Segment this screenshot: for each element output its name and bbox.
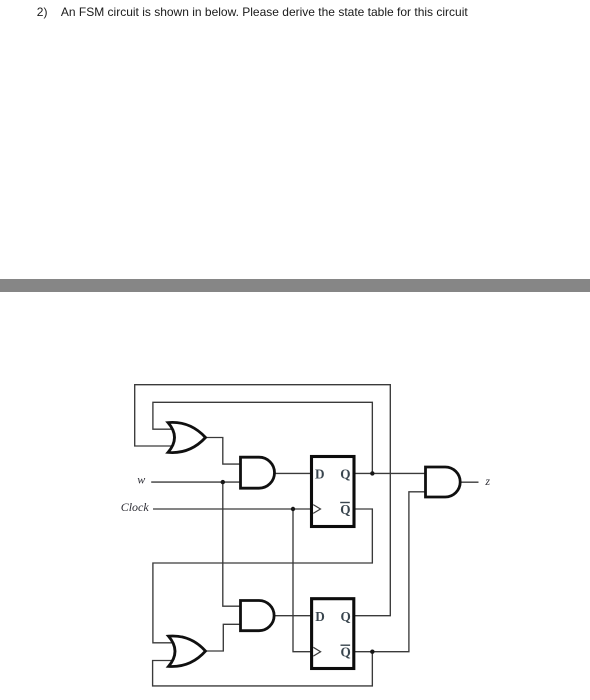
wire: Clock branch down to FF2 clock input xyxy=(293,509,312,652)
D flip-flop U1 (top) box xyxy=(312,457,355,527)
wire: OR1 output to AND1 upper input xyxy=(205,438,242,465)
svg-text:Q: Q xyxy=(340,502,350,517)
U1 clock input triangle xyxy=(313,505,320,514)
svg-text:Q: Q xyxy=(341,609,351,624)
wire: FF2 Q output / outer feedback loop to OR1 lower input xyxy=(135,385,391,616)
wire: Clock line to FF1 clock input xyxy=(153,508,312,510)
wire: AND1 output to FF1 D input xyxy=(273,472,312,474)
or-gate G1 (top OR) xyxy=(168,422,206,452)
wire: w input line to AND1 lower input xyxy=(151,481,241,483)
wire: FF1 Q output to AND3 upper input xyxy=(355,472,427,474)
and-gate G3 (output AND producing z) xyxy=(426,467,461,497)
gray separator bar xyxy=(0,279,590,292)
junction: Clock branch node xyxy=(291,507,295,511)
wire: AND2 output to FF2 D input xyxy=(273,615,313,617)
and-gate G2 (top AND) xyxy=(241,457,275,488)
U2 Qbar overline xyxy=(341,644,351,646)
and-gate G4 (bottom AND) xyxy=(241,601,275,631)
svg-text:D: D xyxy=(315,609,325,624)
or-gate G5 (bottom OR) xyxy=(169,636,206,666)
wire: AND3 output to z xyxy=(459,481,479,483)
wire: FF2 Qbar branch bottom loop to OR2 lower input xyxy=(153,652,373,686)
U2 clock input triangle xyxy=(313,647,320,656)
svg-text:w: w xyxy=(137,473,145,487)
svg-text:Q: Q xyxy=(341,645,351,660)
wire: w branch down to AND2 upper input xyxy=(223,482,242,606)
problem statement text xyxy=(37,5,468,19)
svg-text:Clock: Clock xyxy=(121,500,150,514)
junction: FF2 Qbar node xyxy=(370,650,374,654)
wire: FF2 Qbar output up to AND3 lower input xyxy=(355,492,427,652)
svg-text:D: D xyxy=(315,467,325,482)
junction: w branch node xyxy=(221,480,225,484)
U1 Qbar overline xyxy=(340,502,350,504)
wire: OR2 output up to AND2 lower input xyxy=(205,624,242,651)
wire: FF1 Qbar output down and across to OR2 upper input xyxy=(153,509,372,643)
wire: FF1 Q inner feedback loop to OR1 upper input xyxy=(153,402,372,473)
svg-text:Q: Q xyxy=(340,467,350,482)
D flip-flop U2 (bottom) box xyxy=(312,599,354,669)
junction: FF1 Q node xyxy=(370,471,374,475)
svg-text:z: z xyxy=(484,474,490,488)
